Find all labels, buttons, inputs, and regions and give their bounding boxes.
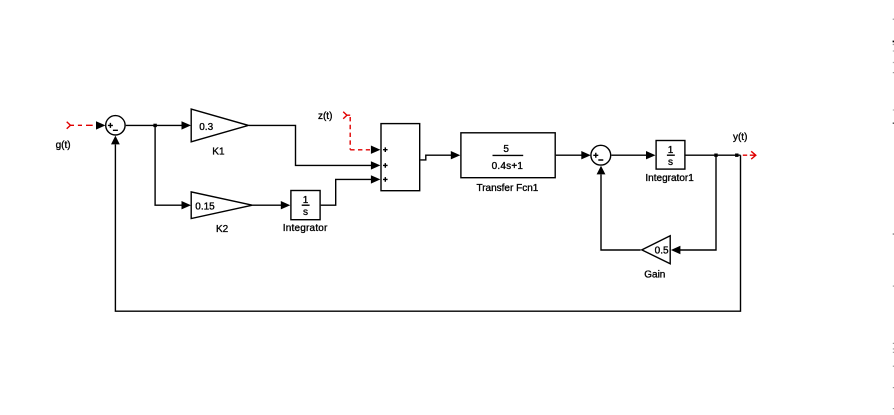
svg-text:Integrator: Integrator xyxy=(283,223,328,234)
svg-text:s: s xyxy=(303,207,308,218)
svg-text:K1: K1 xyxy=(212,147,225,158)
svg-text:Transfer Fcn1: Transfer Fcn1 xyxy=(476,183,538,194)
svg-text:y(t): y(t) xyxy=(733,132,747,143)
svg-text:z(t): z(t) xyxy=(318,111,332,122)
svg-text:0.15: 0.15 xyxy=(195,202,215,213)
svg-text:g(t): g(t) xyxy=(56,140,71,151)
svg-text:Integrator1: Integrator1 xyxy=(645,173,694,184)
svg-text:0.4s+1: 0.4s+1 xyxy=(492,161,524,172)
svg-text:K2: K2 xyxy=(216,224,229,235)
svg-text:s: s xyxy=(668,157,673,168)
svg-text:Gain: Gain xyxy=(644,270,665,281)
svg-text:0.5: 0.5 xyxy=(655,245,669,256)
svg-text:5: 5 xyxy=(503,144,509,155)
svg-text:0.3: 0.3 xyxy=(199,122,213,133)
